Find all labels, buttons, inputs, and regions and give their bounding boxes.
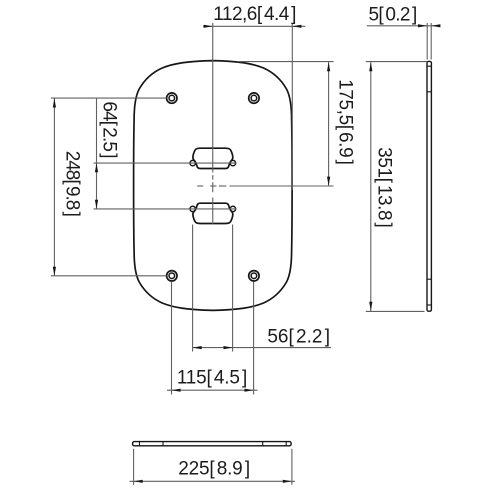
dim 115 line (167, 389, 258, 391)
svg-text:115[4.5]: 115[4.5] (177, 368, 247, 389)
upper slot right circle (230, 160, 235, 165)
dim 112.6 left extension / plate centerline upper (212, 23, 214, 173)
svg-text:5[0.2]: 5[0.2] (369, 4, 417, 25)
dim 115 left extension (171, 282, 173, 395)
dim 248 line (53, 98, 55, 275)
svg-text:248[9.8]: 248[9.8] (61, 151, 82, 216)
dim 225 left extension (133, 449, 135, 485)
arrowheads (53, 24, 441, 483)
upper slot (193, 148, 233, 168)
dim 225 line (130, 480, 296, 482)
lower slot (193, 203, 233, 223)
dim 248 bottom extension (51, 275, 166, 277)
dim 56 left extension (192, 225, 194, 352)
dim 5 line (367, 25, 440, 27)
dim 5 right extension (430, 23, 432, 60)
centerline horizontal cross dash (210, 185, 216, 187)
svg-text:175,5[6.9]: 175,5[6.9] (335, 79, 356, 164)
side view profile (427, 61, 431, 311)
mounting hole bottom-left (167, 271, 177, 281)
dim 64 line (96, 98, 98, 208)
dim 112.6 outside arrows (204, 25, 213, 28)
dimension texts (61, 4, 416, 479)
dim 112.6 line (203, 25, 305, 27)
svg-text:56[2.2]: 56[2.2] (267, 326, 330, 347)
dim 56 line (193, 347, 331, 349)
bottom view profile (133, 442, 292, 446)
svg-text:112,6[4.4]: 112,6[4.4] (213, 4, 296, 25)
dim 175.5 arrows (327, 62, 330, 71)
top extension from plate apex (237, 61, 334, 63)
dim 115 arrows (172, 389, 181, 392)
bottom extension to side view (366, 310, 425, 312)
dim 248 arrows (53, 98, 56, 107)
top extension to side view (366, 61, 427, 63)
mounting hole bottom-right (249, 271, 259, 281)
centerline vertical dash (212, 175, 214, 179)
centerline vertical lower solid (212, 198, 214, 225)
dim 225 right extension (291, 449, 293, 485)
dim 5 left extension (426, 23, 428, 60)
centerline horizontal dash 2 (219, 185, 226, 187)
dim 56 arrows (193, 346, 202, 349)
dim 64 upper extension row (94, 162, 237, 164)
svg-text:64[2.5]: 64[2.5] (98, 101, 119, 157)
dim 5 outside arrows (418, 24, 427, 27)
extension + dimension thin lines (gray) (51, 23, 440, 485)
dim 351 arrows (369, 62, 372, 71)
dim 115 right extension (253, 282, 255, 395)
dim 248 top extension (51, 97, 166, 99)
dim 56 right extension (232, 225, 234, 352)
lower slot right circle (230, 206, 235, 211)
dim 175.5 line (328, 62, 330, 186)
dim 64 lower extension row (94, 208, 237, 210)
dim 351 line (370, 62, 372, 311)
dim 225 arrows (134, 480, 143, 483)
mounting hole top-left (167, 93, 177, 103)
dim 64 arrows (95, 163, 98, 172)
svg-text:225[8.9]: 225[8.9] (178, 459, 250, 480)
upper slot left circle (190, 160, 195, 165)
centerline horizontal solid extension (230, 185, 334, 187)
mounting hole top-right (249, 93, 259, 103)
front view plate outline (134, 61, 293, 311)
svg-text:351[13.8]: 351[13.8] (374, 147, 395, 227)
lower slot left circle (190, 206, 195, 211)
dim 112.6 right extension (291, 23, 293, 190)
centerline horizontal dash 1 (197, 185, 203, 187)
